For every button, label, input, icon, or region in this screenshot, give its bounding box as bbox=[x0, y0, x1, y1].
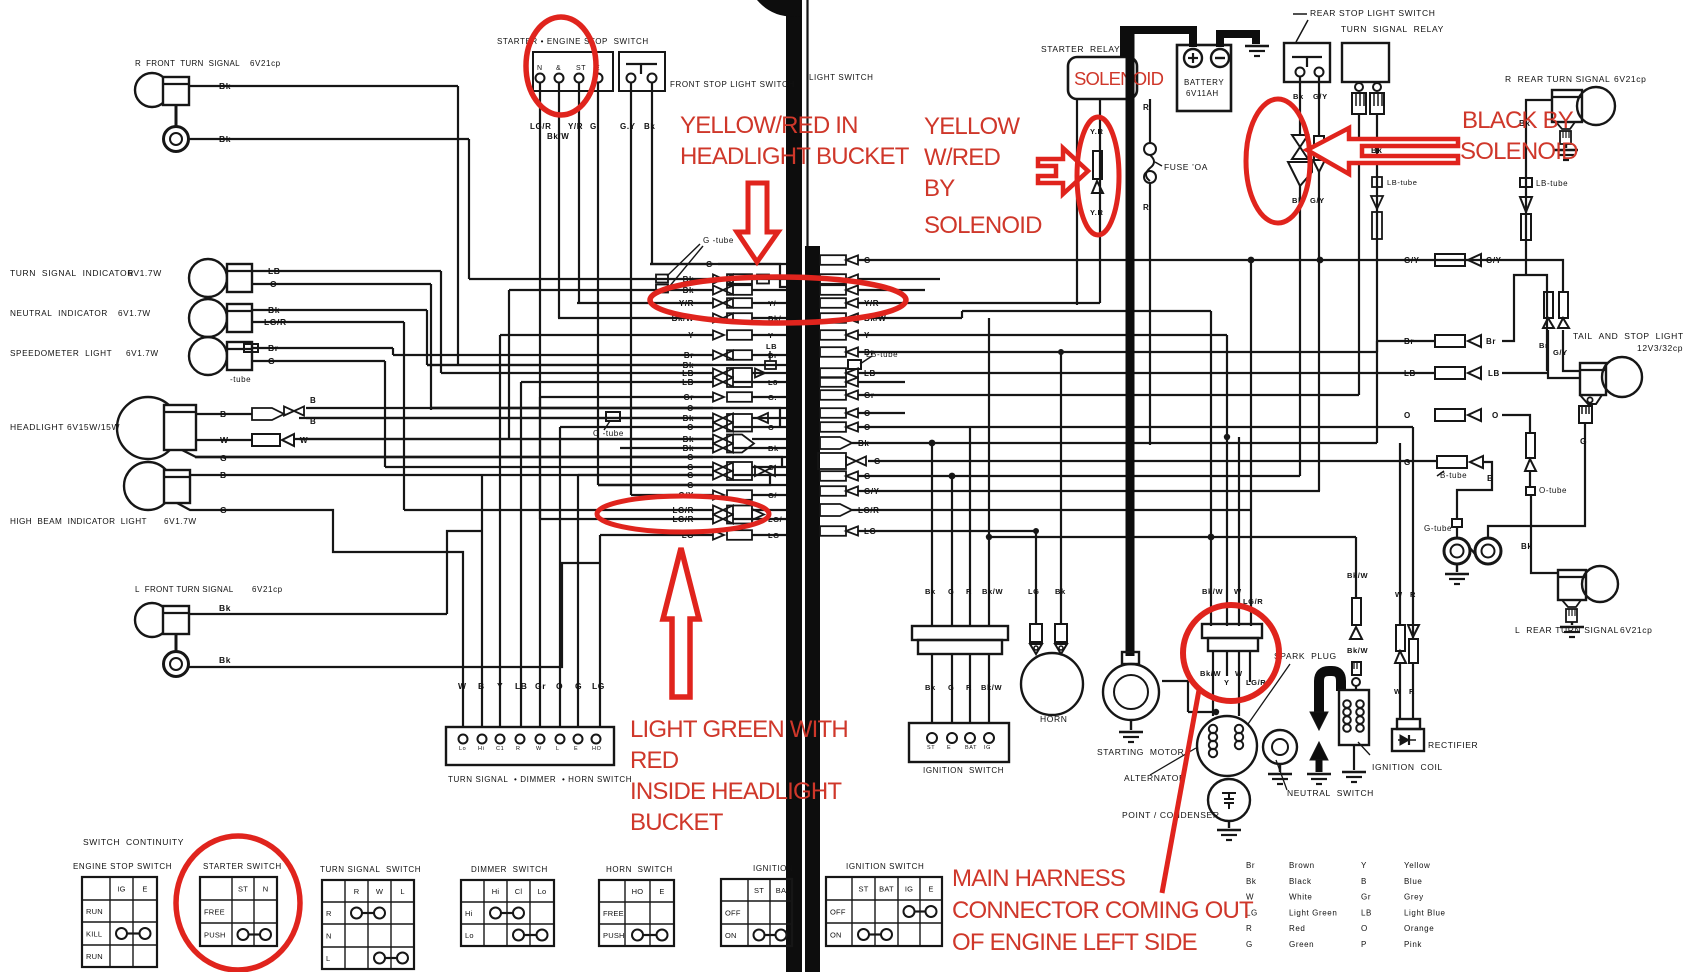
connector Y/R column bbox=[1093, 151, 1102, 179]
svg-text:BLACK BY: BLACK BY bbox=[1462, 107, 1574, 134]
svg-text:LB-tube: LB-tube bbox=[1536, 179, 1568, 188]
svg-text:Hi: Hi bbox=[478, 746, 484, 752]
G-tube box bbox=[1452, 519, 1462, 527]
wire Bk from stop light switch bbox=[651, 82, 653, 264]
svg-text:LB-tube: LB-tube bbox=[1387, 178, 1417, 187]
svg-text:R: R bbox=[966, 587, 972, 596]
svg-text:B: B bbox=[1361, 877, 1367, 886]
red pointer line main harness bbox=[1162, 690, 1199, 893]
red up arrow bbox=[663, 548, 699, 697]
svg-text:Pink: Pink bbox=[1404, 940, 1422, 949]
left bank funnel Bk rows bbox=[727, 435, 754, 453]
left bank tall rect Bk O rows bbox=[727, 414, 752, 432]
left bank right triangle O row bbox=[757, 413, 768, 423]
svg-text:Br: Br bbox=[1246, 861, 1255, 870]
left bank right bowtie LB row bbox=[755, 369, 765, 378]
svg-text:ST: ST bbox=[859, 885, 869, 894]
svg-text:Black: Black bbox=[1289, 877, 1312, 886]
svg-text:B: B bbox=[1487, 473, 1494, 483]
tube on Br wire bbox=[244, 344, 258, 352]
svg-text:Bk: Bk bbox=[219, 81, 231, 91]
svg-text:Lo: Lo bbox=[459, 746, 466, 752]
svg-text:G/Y: G/Y bbox=[1310, 196, 1325, 205]
wire O turn signal indicator bbox=[252, 283, 431, 285]
thick up arrow from engine bbox=[1310, 742, 1328, 760]
svg-text:Br: Br bbox=[1486, 337, 1496, 346]
connector Br row right bbox=[1435, 335, 1465, 347]
svg-text:G/Y: G/Y bbox=[1404, 256, 1420, 265]
svg-text:Bk: Bk bbox=[858, 439, 869, 448]
svg-text:W: W bbox=[458, 681, 467, 691]
svg-text:B: B bbox=[310, 396, 316, 405]
svg-text:Gr: Gr bbox=[683, 393, 694, 402]
svg-text:G -tube: G -tube bbox=[703, 236, 734, 245]
svg-text:RUN: RUN bbox=[86, 907, 103, 916]
svg-text:Bk: Bk bbox=[683, 414, 694, 423]
svg-text:LB: LB bbox=[682, 378, 694, 387]
svg-text:TURN SIGNAL RELAY: TURN SIGNAL RELAY bbox=[1341, 24, 1444, 34]
svg-text:OF ENGINE LEFT SIDE: OF ENGINE LEFT SIDE bbox=[952, 929, 1197, 956]
wire Bk L front ground bbox=[188, 563, 600, 667]
svg-text:E: E bbox=[659, 887, 664, 896]
wire LG/R from starter switch bbox=[539, 82, 541, 519]
left bank G485 bracket bbox=[598, 475, 770, 485]
wire Br speedometer bbox=[252, 347, 393, 349]
svg-text:STARTER • ENGINE STOP SWITCH: STARTER • ENGINE STOP SWITCH bbox=[497, 37, 649, 46]
wire Bk/W row to ignition coil bbox=[989, 536, 1356, 538]
svg-text:L: L bbox=[556, 746, 560, 752]
svg-text:R: R bbox=[354, 887, 360, 896]
wire Bk vertical from turn signal relay bbox=[1376, 114, 1378, 443]
svg-text:G: G bbox=[590, 122, 597, 131]
wire G speedometer bbox=[252, 360, 385, 362]
wire B high beam bbox=[190, 474, 713, 476]
svg-text:Bk: Bk bbox=[1246, 877, 1257, 886]
svg-text:Gr: Gr bbox=[1361, 893, 1371, 902]
wires ignition switch risers bbox=[931, 443, 933, 626]
svg-text:12V3/32cp: 12V3/32cp bbox=[1637, 343, 1683, 353]
wire G/Y into tail light bbox=[1563, 330, 1580, 371]
svg-text:6V1.7W: 6V1.7W bbox=[126, 349, 159, 358]
svg-text:FUSE ’OA: FUSE ’OA bbox=[1164, 162, 1208, 172]
svg-text:DIMMER SWITCH: DIMMER SWITCH bbox=[471, 865, 548, 874]
O column connector and O-tube bbox=[1526, 433, 1535, 458]
svg-text:-tube: -tube bbox=[230, 375, 251, 384]
svg-text:E: E bbox=[928, 885, 933, 894]
svg-text:IGNITION COIL: IGNITION COIL bbox=[1372, 762, 1443, 772]
svg-text:P: P bbox=[1361, 940, 1367, 949]
svg-text:FREE: FREE bbox=[204, 908, 225, 917]
svg-text:6V11AH: 6V11AH bbox=[1186, 89, 1219, 98]
alternator bbox=[1197, 716, 1257, 776]
svg-text:G/Y: G/Y bbox=[1553, 348, 1568, 357]
svg-text:STARTER SWITCH: STARTER SWITCH bbox=[203, 862, 282, 871]
svg-text:Y/R: Y/R bbox=[679, 299, 694, 308]
svg-text:Y: Y bbox=[688, 331, 694, 340]
svg-text:L8: L8 bbox=[768, 378, 778, 387]
svg-text:TAIL AND STOP LIGHT: TAIL AND STOP LIGHT bbox=[1573, 331, 1684, 341]
svg-text:LG: LG bbox=[592, 681, 605, 691]
svg-text:B: B bbox=[220, 470, 227, 480]
svg-text:G: G bbox=[220, 505, 227, 515]
wire B headlight upper bbox=[196, 413, 252, 415]
svg-text:BA: BA bbox=[776, 886, 786, 895]
svg-text:Cl: Cl bbox=[515, 887, 523, 896]
svg-text:SPARK PLUG: SPARK PLUG bbox=[1274, 651, 1337, 661]
red ellipse starter switch terminals bbox=[526, 17, 596, 115]
svg-text:Y.R: Y.R bbox=[1090, 127, 1103, 136]
svg-text:Y: Y bbox=[768, 331, 774, 340]
svg-text:Bk: Bk bbox=[644, 122, 655, 131]
svg-text:Bk: Bk bbox=[1521, 542, 1532, 551]
svg-text:W: W bbox=[300, 436, 308, 445]
svg-text:LG/R: LG/R bbox=[672, 515, 694, 524]
svg-text:G.Y: G.Y bbox=[620, 122, 636, 131]
svg-text:HEADLIGHT 6V15W/15W: HEADLIGHT 6V15W/15W bbox=[10, 422, 120, 432]
svg-text:Y/: Y/ bbox=[768, 299, 777, 308]
svg-text:Y: Y bbox=[1224, 678, 1230, 687]
svg-text:PUSH: PUSH bbox=[204, 931, 226, 940]
svg-text:TURN SIGNAL • DIMMER • HORN: TURN SIGNAL • DIMMER • HORN SWITCH bbox=[448, 775, 632, 784]
svg-text:TURN SIGNAL SWITCH: TURN SIGNAL SWITCH bbox=[320, 865, 421, 874]
thick high tension lead bbox=[1319, 671, 1341, 713]
wires ignition switch bbox=[931, 654, 933, 723]
switch box turn signal dimmer horn bbox=[446, 727, 614, 765]
svg-text:KILL: KILL bbox=[86, 930, 102, 939]
svg-text:ALTERNATOR: ALTERNATOR bbox=[1124, 773, 1186, 783]
ground ring R front turn signal bbox=[175, 105, 178, 127]
red ellipse starter switch table bbox=[176, 836, 300, 970]
svg-text:ON: ON bbox=[725, 931, 737, 940]
svg-text:LIGHT SWITCH: LIGHT SWITCH bbox=[809, 73, 874, 82]
tail light bracket bbox=[1580, 395, 1602, 404]
svg-text:C1: C1 bbox=[496, 746, 504, 752]
svg-text:Bk/W: Bk/W bbox=[982, 587, 1003, 596]
svg-text:LG/R: LG/R bbox=[530, 122, 552, 131]
svg-text:NEUTRAL INDICATOR: NEUTRAL INDICATOR bbox=[10, 309, 108, 318]
svg-text:O: O bbox=[270, 279, 277, 289]
wire Y/R vertical to solenoid bbox=[1099, 99, 1101, 303]
wire main-harness right thick bar bbox=[805, 246, 820, 972]
svg-text:BAT: BAT bbox=[965, 745, 977, 751]
svg-text:G: G bbox=[687, 471, 694, 480]
svg-text:G: G bbox=[864, 472, 871, 481]
svg-text:FREE: FREE bbox=[603, 909, 624, 918]
svg-text:ST: ST bbox=[754, 886, 764, 895]
ground rings rear bbox=[1444, 538, 1470, 564]
svg-text:Grey: Grey bbox=[1404, 893, 1424, 902]
wire Bk R front ground bbox=[188, 138, 469, 140]
svg-text:Bk: Bk bbox=[219, 134, 231, 144]
connector pair W headlight bbox=[252, 434, 280, 446]
alternator connector (red circled) bbox=[1202, 624, 1262, 638]
wire G from starter switch bbox=[597, 82, 599, 485]
svg-text:LB: LB bbox=[1488, 369, 1500, 378]
svg-text:Gr: Gr bbox=[864, 391, 875, 400]
svg-text:Green: Green bbox=[1289, 940, 1314, 949]
ground R rear turn signal bbox=[1565, 144, 1567, 148]
svg-text:LG: LG bbox=[768, 531, 780, 540]
L rear bracket connector bbox=[1562, 600, 1581, 607]
wire alternator to point condenser bbox=[1188, 711, 1216, 713]
svg-text:ST: ST bbox=[576, 65, 586, 72]
ignition coil bbox=[1339, 690, 1369, 745]
point condenser bbox=[1208, 779, 1250, 821]
wire vertical Bk to bank row 278 bbox=[468, 139, 470, 279]
svg-text:R FRONT TURN SIGNAL: R FRONT TURN SIGNAL bbox=[135, 59, 240, 68]
svg-text:BAT: BAT bbox=[879, 885, 894, 894]
wire main-harness gutter thin line bbox=[806, 0, 808, 972]
svg-text:Y/R: Y/R bbox=[864, 299, 879, 308]
svg-text:RUN: RUN bbox=[86, 952, 103, 961]
wire G high beam bbox=[177, 503, 463, 727]
svg-text:YELLOW: YELLOW bbox=[924, 113, 1020, 140]
wire Bk L front turn signal bbox=[189, 613, 447, 615]
svg-text:HORN SWITCH: HORN SWITCH bbox=[606, 865, 673, 874]
switch ignition switch box bbox=[909, 723, 1009, 762]
svg-text:W/RED: W/RED bbox=[924, 144, 1000, 171]
wire Br into tail light bbox=[1548, 330, 1580, 378]
svg-text:R: R bbox=[1410, 590, 1416, 599]
svg-text:LG/R: LG/R bbox=[264, 317, 287, 327]
wire Bk neutral indicator bbox=[252, 309, 427, 311]
svg-text:R REAR TURN SIGNAL: R REAR TURN SIGNAL bbox=[1505, 74, 1610, 84]
wire G/Y rear stop switch bbox=[1318, 77, 1320, 136]
svg-text:Bk/W: Bk/W bbox=[1347, 646, 1368, 655]
svg-text:G-tube: G-tube bbox=[1424, 524, 1452, 533]
svg-text:Bk: Bk bbox=[219, 655, 231, 665]
svg-text:Light Blue: Light Blue bbox=[1404, 908, 1446, 917]
wire solenoid left leg bbox=[1076, 99, 1078, 305]
red down arrow bbox=[737, 183, 778, 262]
svg-text:L: L bbox=[326, 954, 330, 963]
svg-text:G: G bbox=[1404, 458, 1411, 467]
svg-text:LB: LB bbox=[682, 369, 694, 378]
horn bbox=[1021, 653, 1083, 715]
ground battery negative bbox=[1245, 45, 1269, 47]
svg-text:SWITCH CONTINUITY: SWITCH CONTINUITY bbox=[83, 837, 184, 847]
svg-text:Y.R: Y.R bbox=[1090, 208, 1103, 217]
wire vertical Bk rear stop down to G row bbox=[1299, 186, 1301, 476]
W R columns to rectifier bbox=[1399, 443, 1401, 625]
wires W B Y LB Gr O G LG risers to switch bbox=[481, 475, 483, 727]
svg-text:NEUTRAL SWITCH: NEUTRAL SWITCH bbox=[1287, 788, 1374, 798]
wire G.Y from stop light switch bbox=[630, 82, 632, 495]
svg-text:G: G bbox=[1580, 436, 1587, 446]
svg-text:LIGHT GREEN WITH: LIGHT GREEN WITH bbox=[630, 716, 848, 743]
left bank tall rect LB rows bbox=[727, 368, 752, 387]
svg-text:ON: ON bbox=[830, 931, 842, 940]
svg-text:O: O bbox=[1492, 411, 1499, 420]
svg-text:Br: Br bbox=[268, 343, 279, 353]
svg-text:OFF: OFF bbox=[725, 909, 741, 918]
svg-text:Y: Y bbox=[1361, 861, 1367, 870]
starting motor bbox=[1122, 652, 1139, 664]
svg-text:6V21cp: 6V21cp bbox=[250, 59, 281, 68]
svg-text:LG: LG bbox=[864, 527, 876, 536]
svg-text:G: G bbox=[575, 681, 582, 691]
svg-text:Blue: Blue bbox=[1404, 877, 1422, 886]
svg-text:6V21cp: 6V21cp bbox=[252, 585, 283, 594]
svg-text:Bk: Bk bbox=[219, 603, 231, 613]
svg-text:R: R bbox=[326, 909, 332, 918]
svg-text:Br: Br bbox=[684, 351, 694, 360]
svg-text:LB: LB bbox=[515, 681, 528, 691]
svg-text:LG/R: LG/R bbox=[672, 506, 694, 515]
svg-text:CONNECTOR COMING OUT: CONNECTOR COMING OUT bbox=[952, 897, 1254, 924]
svg-text:R: R bbox=[1246, 924, 1252, 933]
svg-text:R: R bbox=[1143, 203, 1149, 212]
svg-text:Lo: Lo bbox=[465, 931, 474, 940]
svg-text:&: & bbox=[556, 65, 561, 72]
wire Bk R front turn signal bbox=[189, 85, 458, 87]
svg-text:6V21cp: 6V21cp bbox=[1620, 625, 1652, 635]
neutral switch bbox=[1263, 730, 1297, 764]
svg-text:LB: LB bbox=[268, 266, 281, 276]
svg-text:R: R bbox=[1143, 103, 1149, 112]
svg-text:INSIDE HEADLIGHT: INSIDE HEADLIGHT bbox=[630, 778, 842, 805]
svg-text:L FRONT TURN SIGNAL: L FRONT TURN SIGNAL bbox=[135, 585, 234, 594]
svg-text:ST: ST bbox=[927, 745, 935, 751]
svg-text:Gr: Gr bbox=[535, 681, 546, 691]
svg-text:BATTERY: BATTERY bbox=[1184, 78, 1224, 87]
svg-text:IG: IG bbox=[117, 885, 125, 894]
svg-text:SOLENOID: SOLENOID bbox=[924, 212, 1042, 239]
svg-text:R: R bbox=[516, 746, 521, 752]
wire main-harness left thick bar bbox=[786, 0, 802, 972]
wire Bk from R rear turn signal bbox=[1526, 100, 1552, 275]
wire Y/R from starter switch bbox=[578, 82, 580, 303]
left bank funnel tip LG/R bbox=[752, 509, 764, 520]
alternator connector wires down bbox=[1212, 651, 1214, 716]
wire G from tail light to ring bbox=[1488, 423, 1585, 538]
svg-text:Bk/W: Bk/W bbox=[1202, 587, 1223, 596]
left bank G457 bracket bbox=[195, 457, 782, 467]
svg-text:Bk: Bk bbox=[683, 286, 694, 295]
svg-text:W: W bbox=[1234, 587, 1242, 596]
svg-text:B: B bbox=[220, 409, 227, 419]
svg-text:Y: Y bbox=[497, 681, 503, 691]
svg-text:MAIN HARNESS: MAIN HARNESS bbox=[952, 865, 1125, 892]
svg-text:ST: ST bbox=[238, 885, 248, 894]
svg-text:OFF: OFF bbox=[830, 908, 846, 917]
connector O row right bbox=[1435, 409, 1465, 421]
connector G/Y column bbox=[1314, 136, 1324, 160]
wires horn LG Bk bbox=[1035, 531, 1037, 624]
svg-text:R: R bbox=[1409, 687, 1415, 696]
svg-text:G: G bbox=[948, 683, 954, 692]
svg-text:Y/R: Y/R bbox=[568, 122, 583, 131]
svg-text:G: G bbox=[1246, 940, 1253, 949]
svg-text:N: N bbox=[326, 932, 332, 941]
svg-text:SOLENOID: SOLENOID bbox=[1460, 138, 1578, 165]
svg-text:G: G bbox=[874, 457, 881, 466]
svg-text:BY: BY bbox=[924, 175, 955, 202]
red right arrow bbox=[1038, 148, 1088, 194]
turn signal relay terminals bbox=[1355, 83, 1363, 91]
LB-tube box right bank bbox=[848, 360, 861, 369]
svg-text:O: O bbox=[687, 423, 694, 432]
svg-text:HORN: HORN bbox=[1040, 714, 1067, 724]
svg-text:LG: LG bbox=[1028, 587, 1040, 596]
svg-text:Bk: Bk bbox=[683, 444, 694, 453]
thick wire battery positive to solenoid bbox=[1124, 30, 1193, 57]
svg-text:Hi: Hi bbox=[492, 887, 500, 896]
svg-text:RECTIFIER: RECTIFIER bbox=[1428, 740, 1478, 750]
svg-text:O: O bbox=[864, 409, 871, 418]
wire LB turn signal indicator bbox=[252, 270, 441, 272]
svg-text:Bk: Bk bbox=[925, 683, 936, 692]
svg-text:G: G bbox=[268, 356, 275, 366]
svg-text:BUCKET: BUCKET bbox=[630, 809, 724, 836]
thick down arrow to engine bbox=[1310, 712, 1328, 730]
svg-text:N: N bbox=[537, 65, 543, 72]
svg-text:G/Y: G/Y bbox=[1486, 256, 1502, 265]
connector ignition switch harness bbox=[912, 626, 1008, 640]
wire G headlight bbox=[182, 450, 713, 457]
svg-text:LB: LB bbox=[766, 342, 777, 351]
svg-text:IGNITION: IGNITION bbox=[753, 864, 793, 873]
red circle alternator connector bbox=[1183, 605, 1279, 701]
svg-text:HEADLIGHT BUCKET: HEADLIGHT BUCKET bbox=[680, 143, 910, 170]
wire main-harness top bend blob bbox=[757, 0, 802, 17]
R rear bracket connector bbox=[1556, 122, 1575, 129]
svg-text:O: O bbox=[1361, 924, 1368, 933]
svg-text:SPEEDOMETER LIGHT: SPEEDOMETER LIGHT bbox=[10, 349, 112, 358]
vertical riser Bk row290 to row439 bbox=[508, 290, 510, 439]
svg-text:HIGH BEAM INDICATOR LIGHT: HIGH BEAM INDICATOR LIGHT bbox=[10, 517, 147, 526]
ground L rear turn signal bbox=[1571, 622, 1573, 625]
svg-text:Bk: Bk bbox=[268, 305, 280, 315]
svg-text:POINT / CONDENSER: POINT / CONDENSER bbox=[1122, 810, 1220, 820]
svg-text:Bk/W: Bk/W bbox=[981, 683, 1002, 692]
alternator connector wires up bbox=[1210, 311, 1212, 626]
connector G/Y row right bbox=[1435, 254, 1465, 266]
left bank O row bracket bbox=[431, 408, 780, 427]
svg-text:6V1.7W: 6V1.7W bbox=[128, 268, 162, 278]
battery bbox=[1177, 45, 1231, 111]
ground ring L front turn signal bbox=[175, 634, 178, 652]
LB tube connector on Bk wire bbox=[1520, 178, 1532, 187]
fuse 10A bbox=[1149, 99, 1151, 143]
connector LB row right bbox=[1435, 367, 1465, 379]
svg-text:E: E bbox=[947, 745, 951, 751]
svg-text:Bk: Bk bbox=[683, 435, 694, 444]
svg-text:Orange: Orange bbox=[1404, 924, 1434, 933]
svg-text:Br: Br bbox=[1404, 337, 1414, 346]
G-tube boxes on Bk rows bbox=[656, 275, 668, 283]
thick wire battery negative to ground bbox=[1220, 34, 1256, 47]
thick main harness down to starting motor bbox=[1126, 34, 1135, 656]
svg-text:E: E bbox=[574, 746, 578, 752]
svg-text:Bk: Bk bbox=[925, 587, 936, 596]
svg-text:Yellow: Yellow bbox=[1404, 861, 1430, 870]
svg-text:W: W bbox=[1394, 687, 1402, 696]
svg-text:Hi: Hi bbox=[465, 909, 473, 918]
svg-text:Bk/W: Bk/W bbox=[1200, 669, 1221, 678]
rectifier bbox=[1397, 719, 1420, 729]
svg-text:W: W bbox=[1235, 669, 1243, 678]
svg-text:IG: IG bbox=[905, 885, 913, 894]
wire Gr vertical to turn signal relay bbox=[1358, 114, 1360, 395]
svg-text:6V1.7W: 6V1.7W bbox=[118, 309, 151, 318]
ground below rings bbox=[1456, 564, 1458, 572]
svg-text:B: B bbox=[478, 681, 485, 691]
wire LG/R neutral indicator bbox=[252, 321, 404, 323]
tail light connector hatched bbox=[1579, 406, 1592, 423]
svg-text:G/Y: G/Y bbox=[1313, 92, 1328, 101]
left bank right bowtie G rows bbox=[755, 466, 765, 476]
